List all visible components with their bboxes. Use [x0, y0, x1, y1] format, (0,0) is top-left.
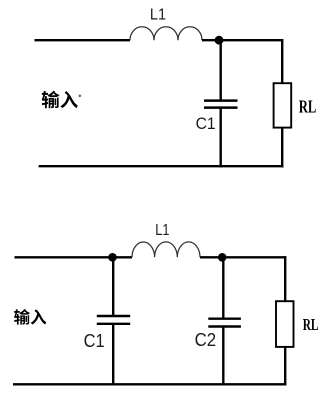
wire: bottom return wire (bottom circuit)	[13, 383, 286, 385]
wire: right vertical lower segment (bottom circuit)	[284, 347, 286, 386]
svg-text:L1: L1	[155, 222, 169, 239]
wire: inductor to right corner (bottom circuit)	[200, 256, 286, 258]
wire: capacitor C1 down to bottom wire (bottom circuit)	[112, 324, 114, 386]
node junction dot right (bottom circuit)	[218, 253, 227, 262]
svg-text:RL: RL	[299, 96, 317, 116]
svg-text:C1: C1	[84, 331, 105, 351]
svg-text:RL: RL	[303, 315, 319, 334]
label L1 (bottom circuit)	[155, 222, 169, 239]
svg-text:C1: C1	[196, 114, 216, 133]
capacitor C1 (top circuit)	[204, 101, 238, 108]
wire: junction down to capacitor C1 (top circuit)	[219, 40, 221, 99]
resistor RL (bottom circuit)	[276, 301, 294, 347]
svg-text:C2: C2	[195, 330, 217, 350]
wire: top circuit input upper lead	[35, 39, 131, 41]
resistor RL (top circuit)	[274, 83, 292, 127]
speck artifact near top input label	[79, 95, 82, 98]
inductor L1 (top circuit)	[130, 27, 202, 40]
capacitor C2 (bottom circuit)	[208, 319, 241, 327]
wire: bottom circuit input upper lead	[15, 256, 133, 258]
label C2 (bottom circuit)	[195, 330, 217, 350]
label L1 (top circuit)	[150, 6, 166, 23]
label C1 (bottom circuit)	[84, 331, 105, 351]
wire: capacitor C2 down to bottom wire (bottom circuit)	[222, 327, 224, 386]
label C1 (top circuit)	[196, 114, 216, 133]
wire: inductor to right corner (top circuit)	[202, 39, 283, 41]
node junction dot left (bottom circuit)	[108, 253, 117, 262]
wire: capacitor C1 down to bottom wire (top circuit)	[219, 108, 221, 168]
inductor L1 (bottom circuit)	[132, 242, 200, 257]
capacitor C1 (bottom circuit)	[97, 316, 130, 324]
wire: right vertical upper segment (bottom circuit)	[284, 256, 286, 301]
label input 输入 (top circuit)	[42, 91, 60, 108]
node junction dot (top circuit)	[215, 36, 224, 45]
wire: right vertical lower segment (top circuit)	[281, 128, 283, 168]
wire: bottom return wire (top circuit)	[39, 165, 284, 167]
wire: left junction down to capacitor C1 (bottom circuit)	[112, 257, 114, 315]
svg-text:L1: L1	[150, 6, 166, 23]
label RL (bottom circuit)	[303, 315, 319, 334]
wire: right vertical upper segment (top circuit)	[281, 39, 283, 83]
wire: right junction down to capacitor C2 (bottom circuit)	[222, 257, 224, 318]
label RL (top circuit)	[299, 96, 317, 116]
label input 输入 (bottom circuit)	[14, 309, 30, 325]
